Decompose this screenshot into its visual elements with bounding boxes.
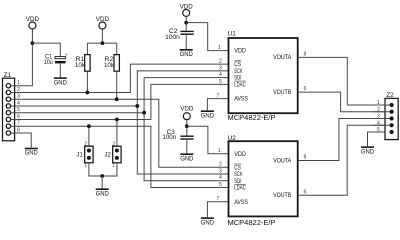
svg-text:10u: 10u bbox=[44, 59, 54, 66]
node C3/U2-VDD junction bbox=[185, 124, 189, 128]
node SCK junction bbox=[135, 104, 139, 108]
wire Z1 pin1 to VDD node bbox=[11, 29, 33, 85]
wire Z1 pin4 SCK bus bbox=[11, 105, 138, 107]
pin number labels U2 bbox=[217, 148, 307, 202]
svg-text:4: 4 bbox=[219, 175, 222, 181]
svg-text:U1: U1 bbox=[228, 31, 237, 38]
resistor R2 10k (pull-up on CS2) bbox=[104, 43, 119, 99]
svg-text:2: 2 bbox=[84, 141, 87, 147]
ground under Z1 bbox=[25, 148, 39, 157]
wire U2 VOUTB to Z2 pin4 bbox=[298, 125, 385, 195]
svg-text:LDAC: LDAC bbox=[234, 185, 246, 192]
svg-text:VOUTB: VOUTB bbox=[273, 192, 291, 199]
svg-text:1: 1 bbox=[218, 45, 221, 51]
svg-text:7: 7 bbox=[217, 93, 220, 99]
svg-text:2: 2 bbox=[112, 141, 115, 147]
svg-text:3: 3 bbox=[219, 168, 222, 174]
svg-text:VDD: VDD bbox=[180, 106, 194, 113]
svg-text:LDAC: LDAC bbox=[234, 81, 246, 88]
svg-text:10k: 10k bbox=[104, 62, 115, 69]
node J2 tap bbox=[115, 118, 119, 122]
svg-text:1: 1 bbox=[112, 163, 115, 169]
svg-text:3: 3 bbox=[219, 65, 222, 71]
capacitor C3 100n bbox=[162, 129, 193, 153]
wire Z1 pin3 CS2 bus to U2 pin2 bbox=[11, 99, 229, 167]
pin number labels Z1 1-8 bbox=[17, 80, 20, 133]
wire Z2 pin5 to ground bbox=[368, 132, 385, 146]
svg-text:100n: 100n bbox=[165, 34, 180, 41]
wire SCK riser U1 pin3 to U2 pin3 bbox=[137, 71, 228, 174]
svg-text:GND: GND bbox=[25, 150, 39, 157]
wire VDD to U1 pin1 bbox=[186, 23, 228, 51]
svg-text:AVSS: AVSS bbox=[234, 199, 248, 206]
svg-text:5: 5 bbox=[219, 79, 222, 85]
wire U1 VOUTA to Z2 pin1 bbox=[298, 57, 385, 105]
node C2/U1-VDD junction bbox=[184, 21, 188, 25]
jumper J1 bbox=[77, 126, 103, 176]
supply VDD (above R1 R2) bbox=[96, 16, 110, 43]
node J1/J2 ground junction bbox=[100, 174, 104, 178]
jumper J2 bbox=[102, 119, 121, 176]
ground under C1 bbox=[54, 77, 68, 86]
svg-text:J1: J1 bbox=[77, 152, 84, 159]
svg-text:MCP4822-E/P: MCP4822-E/P bbox=[228, 113, 276, 122]
ground under C3 bbox=[180, 153, 194, 162]
supply VDD (above C3) bbox=[180, 106, 194, 136]
svg-text:VOUTB: VOUTB bbox=[273, 89, 291, 96]
svg-text:GND: GND bbox=[361, 148, 375, 155]
wire Z1 pin8 to ground bbox=[11, 133, 32, 148]
svg-text:J2: J2 bbox=[105, 152, 112, 159]
wire VDD node to C1 bbox=[32, 43, 60, 57]
svg-text:7: 7 bbox=[217, 196, 220, 202]
svg-text:VOUTA: VOUTA bbox=[273, 54, 292, 61]
wire R1-R2 top rail bbox=[87, 42, 116, 44]
svg-text:4: 4 bbox=[219, 72, 222, 78]
svg-text:VDD: VDD bbox=[234, 151, 246, 158]
capacitor C1 10u (polarized) bbox=[44, 52, 69, 77]
node J1 tap bbox=[87, 124, 91, 128]
svg-text:5: 5 bbox=[219, 182, 222, 188]
svg-text:3: 3 bbox=[377, 114, 380, 120]
svg-text:GND: GND bbox=[96, 190, 110, 197]
svg-text:6: 6 bbox=[304, 189, 307, 195]
svg-text:2: 2 bbox=[219, 59, 222, 65]
svg-text:4: 4 bbox=[377, 120, 380, 126]
pin number labels Z2 1-5 bbox=[377, 100, 380, 133]
wire SDI riser U1 pin4 to U2 pin4 bbox=[144, 78, 228, 181]
connector Z2 bbox=[373, 92, 398, 140]
ground under C2 bbox=[180, 49, 194, 58]
connector Z1 bbox=[3, 72, 15, 141]
svg-text:1: 1 bbox=[377, 100, 380, 106]
node VDD rail junction bbox=[101, 41, 105, 45]
svg-text:1: 1 bbox=[84, 163, 87, 169]
svg-text:6: 6 bbox=[304, 86, 307, 92]
supply VDD (above C2) bbox=[180, 3, 194, 31]
wire U1 AVSS to ground bbox=[207, 99, 228, 111]
svg-text:VDD: VDD bbox=[234, 48, 246, 55]
wire U2 AVSS to ground bbox=[207, 202, 228, 218]
IC U1 MCP4822-E/P bbox=[228, 31, 298, 122]
wire Z1 pin6 LDAC1 bus to U1 pin5 bbox=[11, 84, 229, 119]
pin number labels U1 bbox=[217, 45, 307, 99]
ground under Z2 bbox=[361, 146, 375, 155]
IC U2 MCP4822-E/P bbox=[228, 135, 298, 227]
svg-text:MCP4822-E/P: MCP4822-E/P bbox=[228, 218, 276, 227]
svg-text:2: 2 bbox=[219, 162, 222, 168]
node R2/CS2 junction bbox=[115, 97, 119, 101]
svg-text:8: 8 bbox=[304, 51, 307, 57]
resistor R1 10k (pull-up on CS1) bbox=[75, 43, 90, 92]
supply VDD (top-left) bbox=[26, 16, 40, 29]
svg-text:5: 5 bbox=[377, 127, 380, 133]
wire Z1 pin2 CS1 bus to U1 pin2 bbox=[11, 64, 229, 92]
svg-text:GND: GND bbox=[201, 219, 215, 226]
wire U1 VOUTB to Z2 pin2 bbox=[298, 92, 385, 112]
node VDD junction at C1 branch bbox=[31, 41, 35, 45]
svg-text:8: 8 bbox=[304, 155, 307, 161]
svg-text:GND: GND bbox=[180, 51, 194, 58]
wire VDD to U2 pin1 bbox=[187, 126, 229, 154]
svg-text:100n: 100n bbox=[162, 134, 176, 141]
ground under U2 AVSS bbox=[201, 217, 215, 226]
ground under U1 AVSS bbox=[201, 110, 215, 119]
svg-text:GND: GND bbox=[201, 112, 215, 119]
wire Z1 pin7 LDAC2 bus to U2 pin5 bbox=[11, 126, 229, 187]
svg-text:AVSS: AVSS bbox=[234, 96, 248, 103]
svg-text:GND: GND bbox=[54, 79, 68, 86]
svg-text:VOUTA: VOUTA bbox=[273, 157, 292, 164]
ground under J1 J2 bbox=[96, 176, 110, 197]
svg-text:1: 1 bbox=[218, 148, 221, 154]
svg-text:2: 2 bbox=[377, 107, 380, 113]
node SDI junction bbox=[142, 111, 146, 115]
node R1/CS1 junction bbox=[86, 91, 90, 95]
wire Z1 pin5 SDI bus bbox=[11, 112, 145, 114]
capacitor C2 100n bbox=[165, 28, 194, 49]
svg-text:10k: 10k bbox=[75, 62, 86, 69]
wire U2 VOUTA to Z2 pin3 bbox=[298, 119, 385, 161]
svg-text:GND: GND bbox=[180, 155, 194, 162]
